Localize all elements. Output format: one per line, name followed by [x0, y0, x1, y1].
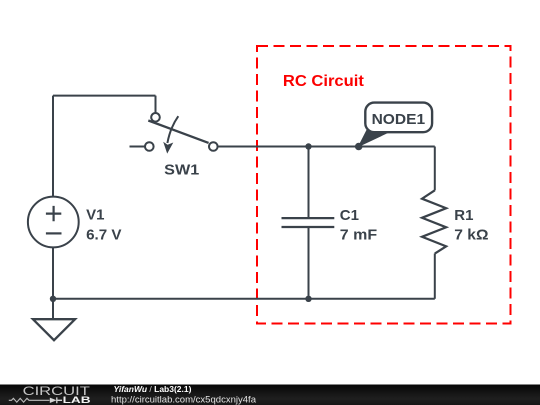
- svg-text:NODE1: NODE1: [372, 111, 426, 128]
- switch SW1 common terminal: [209, 142, 218, 151]
- junction dot capacitor top: [305, 143, 311, 149]
- wire bottom rail: [53, 298, 435, 300]
- ground symbol: [33, 319, 75, 340]
- svg-text:RC Circuit: RC Circuit: [283, 73, 365, 90]
- svg-text:LAB: LAB: [63, 395, 91, 405]
- wire V1 top: [52, 96, 54, 197]
- switch SW1 left throw terminal: [145, 142, 154, 151]
- voltage source V1: [28, 197, 79, 248]
- svg-text:V1: V1: [86, 206, 104, 223]
- switch SW1 arrow arc: [167, 116, 178, 143]
- RC Circuit dashed box: [257, 46, 511, 324]
- wire switch top terminal: [155, 96, 157, 113]
- svg-text:http://circuitlab.com/cx5qdcxn: http://circuitlab.com/cx5qdcxnjy4fa: [111, 395, 257, 405]
- svg-text:6.7 V: 6.7 V: [86, 226, 121, 243]
- svg-text:7 kΩ: 7 kΩ: [454, 227, 488, 244]
- resistor R1 zigzag: [422, 190, 446, 253]
- junction dot capacitor bottom: [305, 296, 311, 302]
- wire capacitor top lead: [308, 147, 310, 218]
- NODE1 callout bubble: [365, 103, 432, 133]
- footer bar: [0, 385, 540, 405]
- node NODE1 dot: [355, 143, 363, 151]
- capacitor C1 bottom plate: [282, 226, 335, 228]
- svg-text:SW1: SW1: [164, 162, 199, 179]
- wire capacitor bottom lead: [308, 228, 310, 299]
- NODE1 callout tail: [359, 130, 390, 146]
- wire switch output to resistor top: [218, 146, 435, 148]
- wire switch left stub: [130, 146, 145, 148]
- switch SW1 top throw terminal: [151, 113, 160, 122]
- CircuitLab logo resistor zigzag: [9, 398, 50, 402]
- junction dot bottom left: [50, 296, 56, 302]
- svg-text:YifanWu / Lab3(2.1): YifanWu / Lab3(2.1): [114, 384, 192, 394]
- svg-text:R1: R1: [454, 207, 473, 224]
- CircuitLab logo diode: [50, 398, 57, 403]
- capacitor C1 top plate: [282, 217, 335, 219]
- wire resistor bottom lead: [434, 254, 436, 299]
- svg-text:7 mF: 7 mF: [340, 226, 377, 243]
- V1 plus sign: [46, 206, 61, 221]
- V1 minus sign: [46, 232, 62, 234]
- wire top rail: [53, 95, 156, 97]
- wire resistor top lead: [434, 147, 436, 191]
- switch SW1 arrowhead: [163, 142, 173, 154]
- svg-text:C1: C1: [340, 207, 359, 224]
- switch SW1 blade: [148, 121, 208, 143]
- wire V1 bottom to ground: [52, 247, 54, 319]
